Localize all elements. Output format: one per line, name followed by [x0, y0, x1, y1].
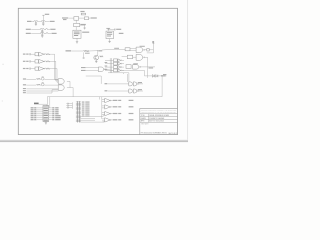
inductor L4 [40, 33, 44, 34]
signal label row 3 [23, 92, 26, 93]
nand gate U9B [136, 54, 145, 60]
junction dot [96, 49, 99, 52]
signal label row 2 [23, 90, 26, 91]
wire [122, 59, 124, 61]
sheet border frame [18, 8, 177, 134]
title block divider [147, 114, 149, 123]
page bottom edge soft [0, 139, 188, 142]
net label out 4b [129, 119, 134, 120]
resistor R8 [36, 78, 40, 79]
wire [26, 78, 36, 80]
J2 pin num 8 [82, 115, 85, 118]
pin label row 1b [26, 54, 28, 55]
wire [80, 24, 85, 26]
wire [26, 90, 58, 92]
U3 text line 3 [107, 35, 111, 38]
wire [107, 28, 109, 31]
wire [37, 109, 43, 111]
pin label col row 2 [105, 62, 108, 63]
net label [149, 67, 154, 68]
wire [45, 104, 47, 105]
wire [102, 99, 105, 101]
U3 text line 2 [107, 33, 112, 36]
U7 text row 4 [44, 111, 48, 114]
wire [105, 69, 114, 70]
U7 right pin name 4 [55, 112, 58, 115]
wire [69, 17, 74, 19]
termination Z2 [147, 49, 149, 51]
ground [41, 36, 43, 37]
net label [52, 33, 57, 34]
U7 right pin num 3 [52, 110, 54, 113]
capacitor C8 [29, 60, 32, 62]
wire [122, 63, 124, 65]
resistor R6 [45, 54, 49, 55]
resistor R5 [99, 56, 103, 57]
wire [109, 48, 126, 50]
wire [49, 113, 52, 115]
wire [45, 121, 47, 122]
label right of Y1 [82, 32, 89, 33]
title block outline [140, 109, 178, 135]
inductor L1 [34, 21, 38, 22]
wire [49, 109, 52, 111]
connector label J3 [152, 41, 154, 43]
nand gate U4A [98, 67, 105, 72]
net label pair 1 [138, 82, 142, 83]
net label out 1 [113, 100, 118, 101]
capacitor C3 [41, 29, 43, 32]
inductor L3 [40, 29, 44, 30]
net label LINE-F [50, 21, 55, 22]
scan speck [1, 100, 4, 103]
J2 pin name 8 [85, 115, 89, 118]
inverter U5C [39, 67, 45, 71]
wire [102, 118, 105, 120]
Y1 text line 3 [74, 34, 78, 37]
wire [89, 50, 98, 52]
U7 right pin name 2 [55, 108, 58, 111]
network RP3 [35, 67, 39, 70]
crystal oscillator Y1 [73, 30, 81, 38]
wire [26, 92, 52, 94]
wire [86, 75, 101, 77]
wire [37, 113, 43, 115]
U7 left pin num 5 [34, 114, 36, 117]
wire [65, 103, 68, 105]
wire [102, 105, 105, 107]
bus wire [47, 96, 162, 98]
wire [26, 88, 58, 90]
wire [44, 33, 46, 35]
page background [0, 0, 200, 145]
wire [56, 69, 58, 83]
power tick [153, 42, 155, 44]
line receiver U6A [58, 79, 64, 84]
microcontroller U7 [43, 106, 49, 122]
value label [80, 24, 85, 25]
wire [69, 105, 73, 107]
wire [80, 121, 104, 123]
U7 left pin num 6 [34, 116, 36, 119]
wire [65, 107, 68, 109]
wire [84, 28, 86, 29]
network RP5 [114, 62, 118, 65]
voltage regulator U3 [106, 31, 114, 38]
net label out 2 [113, 106, 118, 107]
U7 text row 5 [44, 112, 48, 115]
wire [79, 17, 85, 19]
J2 pin name 1 [85, 101, 89, 104]
bus wire [110, 58, 112, 73]
and gate U11A [129, 82, 133, 86]
wire [37, 117, 43, 119]
U7 right pin name 7 [55, 118, 60, 121]
wire [130, 48, 136, 50]
capacitor C12 [66, 107, 69, 109]
net label pair 2 [138, 89, 142, 90]
wire [48, 29, 50, 31]
node label J1-2 [26, 29, 31, 30]
wire [102, 112, 105, 114]
wire [158, 75, 162, 77]
U7 left pin name 4 [31, 112, 34, 115]
wire [80, 115, 103, 117]
page right edge shadow [187, 0, 189, 142]
wire [147, 52, 154, 54]
network RP7 [114, 69, 118, 72]
wire [122, 66, 124, 68]
wire [149, 49, 153, 51]
power rail +5V tick [42, 14, 44, 16]
wire [80, 119, 95, 121]
resistor R8 [45, 68, 49, 69]
Y1 text line 1 [74, 31, 80, 34]
nand gate U9A [136, 47, 144, 53]
node label J1-3 [26, 33, 31, 34]
bus wire [109, 58, 111, 73]
wire [105, 66, 114, 68]
wire [108, 90, 129, 92]
U7 text row 8 [44, 118, 48, 121]
wire [112, 100, 113, 102]
wire [108, 29, 114, 31]
pin label Q row 2 [23, 84, 26, 85]
capacitor C5 [84, 27, 86, 30]
U7 text row 1 [44, 106, 48, 109]
J2 pin name 7 [85, 113, 89, 116]
wire [51, 90, 53, 93]
inductor L2 [41, 21, 45, 22]
wire [71, 50, 83, 52]
wire [122, 69, 145, 71]
wire [102, 115, 104, 117]
net label out 1b [129, 100, 134, 101]
J2 pin num 3 [82, 105, 85, 108]
wire [108, 83, 129, 85]
node label J1-1 AC-HI [27, 21, 31, 22]
resistor R3 body [74, 23, 80, 26]
net label [98, 50, 102, 51]
wire [52, 60, 56, 62]
page bottom edge shadow [0, 140, 188, 142]
wire [102, 114, 105, 116]
svg-text:SHT 1 OF 2: SHT 1 OF 2 [169, 133, 178, 135]
J2 pin name 5 [85, 109, 89, 112]
net label out 2b [129, 106, 134, 107]
wire [49, 60, 51, 62]
pin label Q row 1 [23, 78, 26, 79]
wire [69, 81, 71, 87]
wire [128, 73, 130, 82]
net label out 2 suffix [118, 106, 121, 107]
inverter U10B [118, 62, 122, 65]
transistor Q3 [41, 83, 44, 86]
wire [89, 17, 91, 19]
wire [86, 67, 99, 69]
wire [144, 75, 152, 77]
inverter U5A [39, 52, 45, 56]
pin label col row 3 [105, 66, 108, 67]
wire [49, 117, 52, 119]
ground [41, 32, 43, 33]
net label [50, 29, 55, 30]
U7 text row 9 [44, 119, 48, 122]
wire [45, 21, 49, 23]
and gate U11B [129, 89, 133, 93]
wire [65, 105, 68, 107]
wire [75, 27, 77, 31]
U7 left pin name 5 [31, 114, 34, 117]
wire [145, 49, 147, 51]
wire [46, 97, 48, 106]
capacitor C2 [42, 21, 44, 24]
buffer U8D [105, 118, 112, 122]
wire [109, 39, 111, 41]
wire [49, 68, 51, 70]
wire [67, 80, 70, 82]
ground [95, 61, 97, 62]
wire [49, 119, 52, 121]
inverter U10D [118, 69, 122, 72]
wire [103, 121, 105, 122]
U7 right pin num 5 [52, 114, 54, 117]
J2 pin name 3 [85, 105, 89, 108]
pin label row 3a [23, 68, 26, 69]
wire [122, 56, 128, 58]
wire [55, 61, 57, 81]
pin label row 2b [26, 61, 28, 62]
J2 pin name 6 [85, 111, 89, 114]
U7 left pin num 3 [34, 110, 36, 113]
pin label row 2a [23, 61, 26, 62]
wire [130, 49, 136, 51]
capacitor C1 [35, 21, 37, 24]
line receiver U6B [58, 85, 64, 90]
wire [105, 63, 114, 65]
U7 right pin num 7 [52, 118, 54, 121]
wire [55, 79, 59, 81]
wire [84, 25, 86, 27]
wire [37, 115, 43, 117]
wire [140, 66, 155, 68]
wire [49, 111, 52, 113]
and gate U11D [133, 89, 138, 93]
net label above wire [114, 48, 119, 49]
capacitor C14 [83, 57, 85, 60]
wire [138, 83, 143, 85]
wire [102, 107, 105, 109]
title block rule [140, 119, 178, 121]
U3 text line 1 [107, 31, 112, 34]
J2 pin num 6 [82, 111, 85, 114]
J2 pin num 1 [82, 101, 85, 104]
wire [112, 106, 113, 108]
title block rule [140, 113, 178, 115]
power bus bar [106, 27, 110, 29]
value label R4 [85, 53, 90, 54]
U7 text row 2 [44, 107, 48, 110]
capacitor C10 [66, 103, 69, 105]
resistor R1 body [81, 13, 85, 15]
U7 right pin name 3 [55, 110, 58, 113]
connector J2 pins [76, 102, 81, 122]
net label [161, 75, 166, 76]
wire [108, 72, 129, 74]
input label pair 1 [105, 83, 108, 84]
wire [122, 73, 124, 74]
wire [112, 113, 113, 115]
U7 right pin name 1 [55, 106, 58, 109]
wire [112, 119, 113, 121]
wire [122, 69, 124, 71]
pin label row 1a [23, 54, 26, 55]
J2 pin name 4 [85, 107, 89, 110]
wire [105, 69, 114, 71]
U7 left pin name 2 [31, 108, 34, 111]
buffer U2A [74, 17, 79, 21]
delay network Z4 [126, 65, 131, 69]
wire [162, 75, 166, 77]
wire [152, 43, 154, 53]
power label +5V [45, 14, 49, 15]
wire [98, 97, 100, 100]
transistor Q1 [94, 55, 99, 60]
wire [102, 49, 109, 51]
transistor Q2 [41, 77, 44, 80]
pin label row 3b [26, 68, 28, 69]
edge connector J2 body [78, 101, 80, 122]
U7 left pin name 7 [31, 118, 34, 121]
wire to +5V rail [42, 15, 44, 22]
inverter U10A [118, 59, 122, 62]
U7 right pin num 6 [52, 116, 54, 119]
wire [75, 20, 77, 23]
input label pair 2 [105, 90, 108, 91]
ground [42, 24, 44, 25]
title block rule [140, 116, 178, 118]
wire [69, 103, 73, 105]
J2 pin num 7 [82, 113, 85, 116]
net label small [163, 74, 166, 75]
wire [31, 29, 40, 31]
capacitor C6 [113, 29, 116, 31]
wire [76, 38, 78, 41]
U7 text row 3 [44, 109, 48, 112]
and gate U11C [133, 82, 138, 86]
wire [86, 70, 99, 72]
U7 text row 7 [44, 116, 48, 119]
pin label col row 4 [105, 69, 108, 70]
inverter U10C [118, 66, 122, 69]
label U9C [133, 63, 138, 64]
capacitor C9 [29, 68, 32, 70]
wire [138, 90, 143, 92]
wire [102, 120, 105, 122]
wire [161, 76, 163, 97]
wire [101, 97, 103, 119]
Y1 text line 2 [74, 32, 80, 35]
net label out 1 suffix [118, 100, 121, 101]
U7 left pin name 3 [31, 110, 34, 113]
U7 left pin name 6 [31, 116, 34, 119]
net label out 3 [113, 113, 118, 114]
junction dot [108, 29, 109, 30]
wire [97, 51, 99, 55]
wire [49, 97, 51, 108]
wire [56, 80, 58, 82]
J2 pin name 2 [85, 103, 89, 106]
wire [133, 56, 137, 58]
wire [44, 78, 58, 80]
resistor R2 body [84, 17, 88, 20]
net label out 3 suffix [118, 113, 121, 114]
wire [48, 33, 51, 35]
U7 right pin num 1 [52, 106, 54, 109]
wire [95, 60, 97, 61]
ground [35, 24, 37, 25]
inverter U5B [39, 59, 45, 63]
bus wire [71, 102, 73, 109]
wire [52, 53, 55, 55]
U7 right pin name 5 [55, 114, 60, 117]
ferrite bead FB2 [46, 33, 48, 34]
U7 text row 6 [44, 114, 48, 117]
wire [52, 68, 57, 70]
buffer U8B [105, 105, 112, 109]
diode CR1 [152, 75, 154, 78]
wire [31, 33, 40, 35]
ground [108, 41, 110, 42]
capacitor C11 [66, 105, 69, 107]
U7 right pin num 4 [52, 112, 54, 115]
wire [31, 53, 35, 55]
capacitor C4 [41, 33, 43, 36]
wire [102, 101, 105, 103]
net label IN-A [81, 67, 86, 68]
buffer U8C [105, 111, 112, 115]
wire [54, 54, 56, 79]
network RP6 [114, 66, 118, 69]
ferrite bead FB1 [46, 29, 48, 30]
wire [26, 84, 36, 86]
wire [37, 111, 43, 113]
label U9A [140, 46, 145, 47]
net label IN-B [81, 70, 86, 71]
wire [52, 89, 58, 91]
wire [80, 118, 95, 120]
title block rule [140, 121, 178, 123]
